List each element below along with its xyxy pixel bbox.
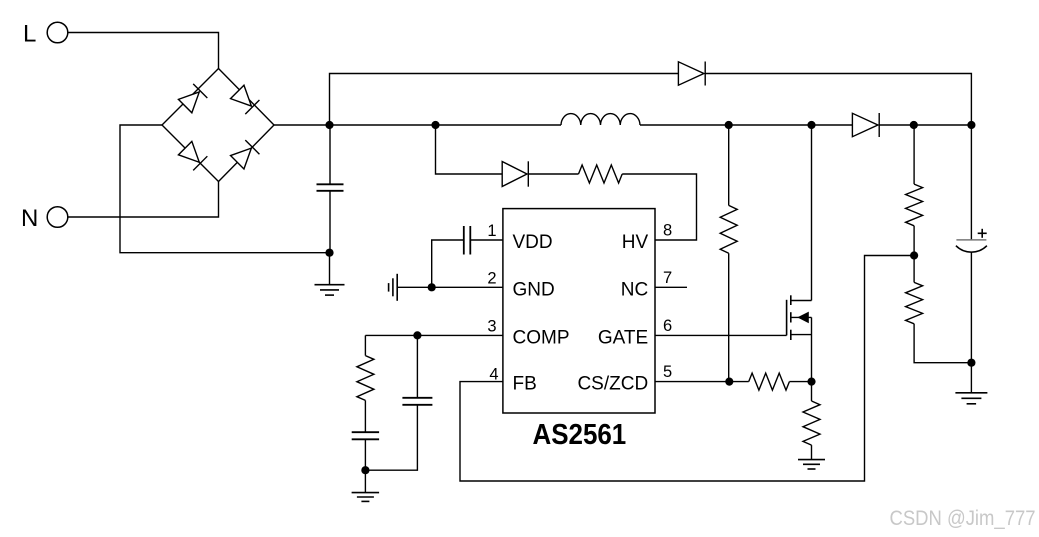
wire L to bridge top bbox=[68, 33, 219, 69]
transistor Q1 drain tap bbox=[791, 300, 812, 302]
diode D3 on main rail bbox=[852, 113, 878, 136]
junction dot rail at C1 bbox=[325, 121, 333, 129]
svg-text:1: 1 bbox=[487, 222, 496, 240]
svg-text:3: 3 bbox=[487, 317, 496, 335]
junction dot COMP node bbox=[413, 331, 421, 339]
transistor Q1 source tap bbox=[791, 334, 812, 336]
wire C4 to comp ground node bbox=[364, 439, 366, 470]
wire pin3 COMP bbox=[365, 334, 503, 336]
junction dot FB divider node bbox=[910, 251, 918, 259]
wire bridge left to bottom rail bbox=[120, 125, 330, 253]
wire R3 to CS node bbox=[728, 253, 730, 381]
ground G1 bbox=[329, 253, 331, 285]
capacitor C5 plus sign bbox=[978, 232, 987, 234]
wire R8 to source node bbox=[789, 381, 811, 383]
svg-text:VDD: VDD bbox=[513, 232, 553, 253]
svg-text:7: 7 bbox=[663, 269, 672, 287]
svg-text:N: N bbox=[21, 205, 38, 232]
wire FB node to R6 bbox=[913, 256, 915, 283]
wire rail to C5 bbox=[970, 125, 972, 240]
svg-text:6: 6 bbox=[663, 317, 672, 335]
transistor Q1 channel dashes bbox=[790, 295, 792, 305]
wire R6 to output ground node bbox=[914, 324, 971, 363]
wire COMP to C3 bbox=[416, 335, 418, 397]
wire pin1 to C2 bbox=[470, 239, 503, 241]
wire R2 to HV pin 8 bbox=[622, 174, 696, 240]
svg-text:8: 8 bbox=[663, 222, 672, 240]
inductor L1 bbox=[561, 114, 640, 125]
ground G4 bbox=[970, 363, 972, 393]
capacitor C2 plates bbox=[469, 226, 471, 255]
main rail left segment bbox=[274, 124, 561, 126]
svg-text:2: 2 bbox=[487, 270, 496, 288]
svg-text:L: L bbox=[23, 21, 36, 48]
wire FB sense loop bbox=[460, 256, 914, 482]
junction dot GND node bbox=[428, 283, 436, 291]
junction dot output ground node bbox=[967, 359, 975, 367]
wire N to bridge bottom bbox=[68, 182, 219, 218]
wire D2 to R2 bbox=[529, 173, 579, 175]
resistor R6 bbox=[906, 282, 923, 323]
wire drain to rail bbox=[811, 125, 813, 301]
resistor R8 cs series bbox=[749, 373, 790, 390]
svg-text:FB: FB bbox=[513, 374, 537, 395]
wire rail to R3 bbox=[728, 125, 730, 205]
capacitor C3 plates bbox=[402, 397, 432, 399]
svg-text:GND: GND bbox=[513, 279, 555, 300]
bridge diode upper-right bbox=[230, 85, 259, 114]
resistor R5 bbox=[906, 184, 923, 226]
junction dot rail at R5 bbox=[910, 121, 918, 129]
wire rail to diode D2 bbox=[436, 125, 503, 174]
junction dot rail at R3 bbox=[725, 121, 733, 129]
svg-text:4: 4 bbox=[489, 365, 498, 383]
pin 7 NC stub bbox=[655, 286, 687, 288]
capacitor C5 curved plate bbox=[956, 246, 987, 252]
svg-text:HV: HV bbox=[622, 232, 649, 253]
wire R7 to C4 bbox=[364, 400, 366, 432]
junction dot rail at drain bbox=[807, 121, 815, 129]
wire C5 to ground node bbox=[970, 252, 972, 363]
terminal L circle bbox=[47, 22, 68, 43]
resistor R3 bbox=[720, 205, 737, 253]
junction dot rail corner bbox=[967, 121, 975, 129]
top rail riser and left segment bbox=[330, 74, 679, 126]
bridge rectifier diamond bbox=[162, 69, 274, 182]
wire pin6 GATE bbox=[655, 334, 787, 336]
terminal N circle bbox=[47, 207, 68, 228]
svg-text:AS2561: AS2561 bbox=[533, 418, 627, 451]
junction dot CS right bbox=[807, 378, 815, 386]
transistor Q1 source/body vertical bbox=[811, 317, 813, 381]
wire pin2 to ground bbox=[397, 286, 503, 288]
junction dot bottom rail bbox=[325, 249, 333, 257]
svg-text:5: 5 bbox=[663, 363, 672, 381]
main rail mid segment bbox=[640, 124, 852, 126]
wire source node to R4 bbox=[811, 382, 813, 401]
capacitor C1 branch wires bbox=[329, 125, 331, 184]
wire pin5 CS/ZCD bbox=[655, 381, 749, 383]
resistor R4 sense bbox=[803, 401, 820, 445]
svg-text:CS/ZCD: CS/ZCD bbox=[577, 374, 648, 395]
capacitor C5 plus plate bbox=[956, 239, 986, 241]
capacitor C1 plates bbox=[317, 183, 344, 185]
wire R5 to FB node bbox=[913, 226, 915, 256]
ground G5 comp bbox=[364, 470, 366, 492]
wire C3 down and across bbox=[365, 405, 417, 470]
diode D2 bbox=[502, 162, 527, 187]
transistor Q1 gate bar bbox=[786, 300, 788, 336]
wire rail to R5 bbox=[913, 125, 915, 184]
diode D4 on top rail bbox=[678, 62, 704, 85]
ground G2 sideways bbox=[396, 274, 398, 301]
top rail right segment bbox=[705, 74, 971, 126]
svg-text:COMP: COMP bbox=[513, 327, 570, 348]
wire COMP to R7 bbox=[364, 335, 366, 355]
svg-text:GATE: GATE bbox=[598, 327, 648, 348]
junction dot rail at D2 branch bbox=[431, 121, 439, 129]
ground G3 bbox=[811, 445, 813, 460]
svg-text:NC: NC bbox=[621, 279, 648, 300]
transistor Q1 body arrow bbox=[791, 316, 812, 318]
op-amp U1 AS2561 body bbox=[503, 209, 655, 413]
capacitor C4 plates bbox=[352, 431, 379, 433]
wire C2 to GND riser bbox=[432, 240, 464, 287]
junction dot CS left bbox=[725, 378, 733, 386]
junction dot comp ground node bbox=[361, 466, 369, 474]
bridge diode lower-left bbox=[178, 141, 207, 170]
resistor R7 comp bbox=[357, 356, 374, 401]
svg-text:CSDN @Jim_777: CSDN @Jim_777 bbox=[890, 507, 1036, 530]
main rail right segment bbox=[879, 124, 971, 126]
bridge diode lower-right bbox=[230, 140, 259, 169]
resistor R2 bbox=[579, 165, 623, 183]
bridge diode upper-left bbox=[178, 84, 207, 113]
